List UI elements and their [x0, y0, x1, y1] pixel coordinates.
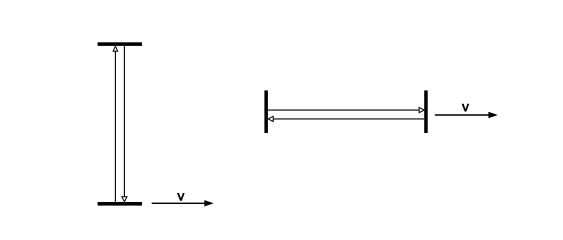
mirror M3 (left mirror of horizontal light clock) [264, 90, 268, 133]
node velocity arrowhead (filled, right figure) [488, 112, 497, 118]
mirror M4 (right mirror of horizontal light clock) [424, 90, 428, 133]
wire (velocity arrow shaft, right figure) [435, 114, 490, 116]
node velocity arrowhead (filled, left figure) [204, 200, 213, 206]
wire (downward light ray of vertical clock) [123, 46, 125, 197]
node right-arrowhead (open triangle pointing right) [419, 108, 424, 113]
wire (leftward light ray of horizontal clock) [274, 118, 425, 120]
wire (rightward light ray of horizontal clock) [268, 109, 420, 111]
mirror M1 (top mirror of vertical light clock) [98, 42, 142, 46]
wire (velocity arrow shaft, left figure) [152, 202, 206, 204]
wire (upward light ray of vertical clock) [114, 51, 116, 202]
node label v (left figure) [177, 193, 185, 201]
node down-arrowhead (open triangle pointing down) [122, 197, 127, 202]
mirror M2 (bottom mirror of vertical light clock) [98, 202, 142, 206]
node label v (right figure) [462, 104, 470, 112]
node left-arrowhead (open triangle pointing left) [268, 116, 273, 121]
node up-arrowhead (open triangle pointing up) [113, 46, 118, 51]
